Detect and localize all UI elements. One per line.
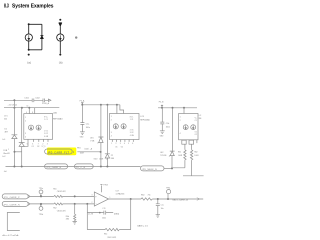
zener D15 [169, 151, 175, 156]
node bottom rail j4 [106, 166, 108, 168]
svg-text:P3V3: P3V3 [103, 185, 107, 187]
test point TP51 [39, 190, 43, 194]
current source U11-A [113, 124, 118, 129]
resistor R52 [54, 203, 63, 205]
svg-text:R61: R61 [178, 152, 181, 154]
zener D13 [98, 137, 104, 143]
svg-text:2: 2 [180, 120, 181, 122]
node D11 junction [14, 151, 16, 153]
svg-text:〈301/1.0R〉: 〈301/1.0R〉 [56, 209, 67, 212]
svg-text:O2: O2 [121, 147, 123, 149]
net oval IPD_CARR_P2 [2, 194, 30, 199]
svg-text:100n: 100n [102, 218, 106, 220]
net oval IPD_CARR_P1 [45, 149, 75, 154]
ground gnd2 [160, 131, 165, 134]
figure (a) current source I1 [25, 23, 43, 64]
svg-text:100R: 100R [80, 152, 85, 154]
svg-text:O1: O1 [32, 146, 34, 148]
wire rail1 +5V top-left [4, 99, 48, 101]
svg-text:U17: U17 [116, 190, 119, 192]
node bottom rail j1 [13, 166, 15, 168]
svg-text:(a): (a) [27, 60, 31, 64]
net oval IPD_CARR_N1b [75, 164, 94, 169]
current source U12-B [191, 125, 196, 130]
svg-text:O1: O1 [115, 147, 117, 149]
svg-text:IPD_CARR_N: IPD_CARR_N [4, 204, 20, 207]
diode D_a [40, 35, 43, 38]
ground gnd1 [80, 132, 85, 135]
svg-text:IPD_CARR_FLT: IPD_CARR_FLT [48, 151, 70, 154]
svg-text:PD_C_N: PD_C_N [76, 167, 86, 169]
svg-text:R62: R62 [194, 152, 197, 154]
wire [59, 26, 61, 53]
wire [29, 24, 42, 50]
node in2 j3 [86, 203, 88, 205]
svg-text:2: 2 [92, 202, 93, 204]
node out arrow [197, 198, 203, 200]
svg-text:3: 3 [111, 132, 112, 134]
wire box3 top pin [183, 108, 185, 114]
node in1 j1 [40, 195, 42, 197]
svg-text:R52: R52 [53, 208, 56, 210]
IC U11 REF200 box2 [110, 114, 140, 140]
svg-text:LC8: LC8 [140, 116, 143, 118]
node rail3 j2 [100, 104, 102, 106]
wire input 1 [30, 195, 95, 197]
node right j [171, 167, 173, 169]
wire oval to junction [141, 167, 173, 169]
svg-text:3: 3 [120, 143, 121, 145]
svg-text:100n: 100n [166, 127, 170, 129]
svg-text:3: 3 [92, 195, 93, 197]
net oval IPD_CARR_N2 [2, 201, 30, 206]
svg-text:8 V+: 8 V+ [44, 116, 48, 118]
node rail2 j1 [13, 107, 15, 109]
svg-text:1: 1 [180, 117, 181, 119]
bracket note [7, 213, 19, 231]
svg-text:7: 7 [38, 143, 39, 145]
wire box1 top pins [29, 108, 34, 114]
capacitor C101 [32, 99, 34, 103]
svg-text:4: 4 [111, 135, 112, 137]
node row1 junction [100, 151, 102, 153]
svg-text:REF200AU: REF200AU [140, 118, 150, 121]
svg-text:dVo = 0.27 mV/uA: dVo = 0.27 mV/uA [2, 234, 19, 237]
wire zener branch [100, 105, 102, 167]
svg-text:100n: 100n [86, 127, 90, 129]
svg-text:C102: C102 [35, 97, 40, 99]
svg-text:R6e: R6e [104, 234, 107, 236]
node out cap j [157, 198, 159, 200]
svg-text:TP61: TP61 [166, 187, 170, 189]
node junction a [28, 49, 30, 51]
svg-text:2M0: 2M0 [66, 219, 69, 221]
test point TP61 [167, 194, 169, 199]
svg-text:2: 2 [42, 143, 43, 145]
svg-text:REF200AU: REF200AU [53, 117, 63, 120]
IC U10 REF200 box1 [24, 114, 53, 140]
svg-text:P5V0_A: P5V0_A [42, 102, 50, 105]
wire box2 top pin [116, 105, 118, 114]
diode D11 TVS [12, 135, 18, 139]
wire rail3 [82, 105, 123, 114]
label box3 pin box2 [189, 140, 194, 144]
resistor R61 [184, 150, 186, 161]
current source U10-B [36, 125, 41, 130]
wire bias branch [74, 204, 76, 214]
wire rail4 [158, 107, 197, 109]
svg-text:8.3: 8.3 [4, 3, 9, 9]
svg-text:J=0: J=0 [4, 171, 7, 173]
svg-text:2: 2 [111, 120, 112, 122]
node output j1 [130, 198, 132, 200]
wire feedback loop [87, 199, 130, 230]
node rail2 j3 [28, 107, 30, 109]
svg-text:1: 1 [111, 116, 112, 118]
diode D_b [59, 23, 62, 27]
capacitor C112 [87, 211, 113, 215]
node top terminal b [59, 19, 61, 21]
test point TP52 [39, 207, 43, 211]
svg-text:D1: D1 [5, 129, 7, 131]
svg-text:5: 5 [128, 143, 129, 145]
wire input 2 [30, 203, 95, 205]
svg-text:〈301〉 100R: 〈301〉 100R [93, 158, 104, 161]
svg-text:8 V+: 8 V+ [130, 116, 134, 118]
net oval IPD_NEGF_N [141, 166, 165, 171]
svg-text:IPD_NEGF_N: IPD_NEGF_N [142, 169, 157, 171]
svg-text:VADJ_CARR_A: VADJ_CARR_A [172, 198, 188, 201]
current source U12-A [183, 125, 188, 130]
node bottom rail j3 [100, 166, 102, 168]
svg-text:3: 3 [25, 133, 26, 135]
capacitor C111 bypass [160, 108, 164, 131]
svg-text:〈301/1.0R〉: 〈301/1.0R〉 [56, 190, 67, 193]
node rail4 j2 [172, 107, 174, 109]
net oval IPD_CARR_N1 [45, 164, 68, 169]
svg-text:〈2〉: 〈2〉 [105, 157, 109, 160]
svg-text:5k2: 5k2 [4, 118, 7, 120]
node bottom rail j2 [21, 166, 23, 168]
wire box3 bottom pins [184, 140, 197, 143]
node rail2 j2 [21, 107, 23, 109]
svg-text:J=1: J=1 [2, 139, 5, 141]
svg-text:R6b: R6b [66, 216, 69, 218]
svg-text:HR1: HR1 [77, 147, 81, 149]
svg-text:6: 6 [32, 143, 33, 145]
svg-text:C11: C11 [102, 208, 105, 210]
svg-text:[GND]: [GND] [114, 213, 119, 215]
svg-text:5B6: 5B6 [111, 158, 114, 160]
svg-text:P5_B: P5_B [159, 102, 164, 104]
svg-text:C1: C1 [195, 120, 197, 122]
svg-text:6: 6 [132, 143, 133, 145]
op-amp U1 [94, 192, 108, 206]
node rail3 j4 [116, 104, 118, 106]
node stray dot [75, 36, 77, 38]
svg-text:LE1: LE1 [90, 137, 93, 139]
svg-text:C101: C101 [24, 97, 29, 99]
resistor R53 vertical [74, 214, 76, 221]
svg-text:O2: O2 [195, 134, 197, 136]
node bottom terminal a [28, 54, 30, 56]
svg-text:10n: 10n [161, 208, 164, 210]
svg-text:4: 4 [25, 136, 26, 138]
node rail4 j1 [161, 107, 163, 109]
svg-text:1: 1 [111, 143, 112, 145]
diode D12 TVS [19, 142, 25, 146]
svg-text:TP5b: TP5b [39, 214, 43, 216]
svg-text:2 O1: 2 O1 [44, 130, 48, 132]
svg-text:C1c: C1c [161, 205, 164, 207]
capacitor C102 [43, 99, 45, 103]
svg-text:〈301/1.0R〉: 〈301/1.0R〉 [106, 236, 117, 239]
ground gnd4 [156, 215, 160, 218]
svg-text:[C_P]: [C_P] [89, 213, 94, 215]
svg-text:2: 2 [25, 121, 26, 123]
wire box1 bottom pins [28, 139, 48, 142]
svg-text:Vbr=4R: Vbr=4R [3, 152, 10, 155]
svg-text:IPD_CARR_P: IPD_CARR_P [4, 196, 20, 199]
wire op-amp output [109, 198, 141, 200]
wire R61 bottom [172, 161, 185, 168]
IC U12 REF200 box3 [179, 114, 198, 140]
resistor R64 [141, 198, 152, 200]
svg-text:14: 14 [27, 106, 29, 108]
wire diode branch right [171, 108, 174, 168]
wire left column v2 [21, 108, 23, 167]
wire rail2 [4, 107, 59, 109]
svg-text:TVS 5B: TVS 5B [160, 155, 167, 157]
svg-text:O1: O1 [195, 131, 197, 133]
svg-text:R51: R51 [53, 188, 56, 190]
svg-text:-: - [96, 202, 97, 205]
svg-text:4R7: 4R7 [5, 132, 8, 134]
svg-text:O2: O2 [37, 146, 39, 148]
wire zener2 branch [106, 105, 108, 167]
svg-text:8: 8 [32, 112, 33, 114]
capacitor C113 out [156, 199, 160, 215]
ground gnd3 [73, 222, 77, 225]
node rail4 j3 [183, 107, 185, 109]
svg-text:73x: 73x [148, 194, 151, 196]
wire P5V rail3 power symbol [81, 102, 83, 105]
svg-text:(b): (b) [59, 60, 63, 64]
svg-text:TP5a: TP5a [39, 188, 43, 190]
resistor R65 feedback [105, 228, 119, 230]
svg-text:1 C1: 1 C1 [130, 119, 134, 121]
node in2 j1 [40, 203, 42, 205]
highlight yellow [47, 148, 76, 156]
wire box2 bottom pins [112, 140, 133, 142]
wire bottom rail left block [6, 166, 141, 168]
capacitor C110 bypass [80, 105, 84, 132]
svg-text:uOPA2333: uOPA2333 [116, 193, 125, 196]
svg-text:J=2: J=2 [2, 156, 5, 158]
svg-text:3: 3 [47, 143, 48, 145]
wire to out label [152, 198, 197, 200]
svg-text:LE2: LE2 [160, 152, 163, 154]
svg-text:1 C1: 1 C1 [44, 119, 48, 121]
svg-text:2 O1: 2 O1 [130, 129, 134, 131]
svg-text:CT1: CT1 [4, 115, 8, 117]
node top terminal a [28, 23, 30, 25]
svg-text:1: 1 [25, 117, 26, 119]
svg-text:IPD_CARR_N: IPD_CARR_N [46, 166, 61, 169]
svg-text:17_9: 17_9 [42, 146, 46, 148]
wire [13, 139, 15, 167]
node bottom terminal b [59, 54, 61, 56]
zener D14 [105, 154, 110, 158]
resistor R51 [54, 195, 63, 197]
svg-text:System Examples: System Examples [12, 3, 54, 9]
svg-text:4: 4 [180, 133, 181, 135]
wire to resistors [185, 144, 192, 150]
current source I2 circle [57, 34, 64, 41]
svg-text:3 O2: 3 O2 [44, 133, 48, 135]
current source I2 arrow [59, 35, 61, 40]
current source I1 arrow [28, 35, 30, 40]
svg-text:GAIN = 1.5: GAIN = 1.5 [137, 225, 149, 228]
svg-text:4: 4 [124, 143, 125, 145]
svg-text:V+: V+ [195, 117, 197, 119]
svg-text:4: 4 [26, 112, 27, 114]
node output j2 [167, 198, 169, 200]
node net arrow P5V0_A [48, 99, 51, 101]
svg-text:〈1k0〉_A: 〈1k0〉_A [83, 148, 92, 151]
wire R62 bottom [183, 161, 204, 176]
node rail3 j1 [81, 104, 83, 106]
current source U10-A [28, 125, 33, 130]
wire left column v1 [13, 100, 15, 135]
svg-text:+ 5V_IN_A: + 5V_IN_A [8, 104, 18, 107]
resistor R62 [190, 150, 192, 161]
wire pin5 to left column [22, 142, 28, 146]
svg-text:V 5B: V 5B [90, 141, 95, 143]
wire cross link [15, 151, 22, 153]
figure (b) current source I2 [57, 19, 64, 65]
svg-text:2: 2 [116, 143, 117, 145]
svg-text:R6d: R6d [141, 194, 144, 196]
label box3 pin box1 [182, 140, 186, 144]
svg-text:C1b: C1b [166, 123, 169, 125]
node rail3 j3 [106, 104, 108, 106]
wire rail4 power symbol [161, 105, 163, 108]
svg-text:3 O2: 3 O2 [130, 132, 134, 134]
node in1 j2 [74, 195, 76, 197]
svg-text:P5_A: P5_A [80, 100, 85, 103]
svg-text:Z2: Z2 [111, 155, 113, 157]
wire op-amp power [100, 185, 102, 193]
wire oval row1 to zener line [77, 151, 101, 153]
node in2 j2 [74, 203, 76, 205]
svg-text:1: 1 [8, 149, 9, 151]
node C112 junction [99, 212, 101, 214]
current source U11-B [121, 124, 126, 129]
current source I1 circle [25, 34, 32, 41]
node rail1 junction [13, 99, 15, 101]
